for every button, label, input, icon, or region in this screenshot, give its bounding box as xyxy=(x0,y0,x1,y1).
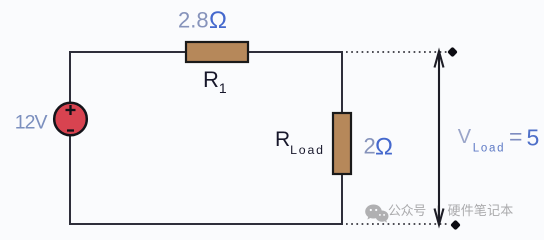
wire top-right segment xyxy=(247,51,343,53)
svg-text:公众号: 公众号 xyxy=(388,203,426,218)
svg-text:Ω: Ω xyxy=(209,7,227,34)
svg-text:2: 2 xyxy=(364,134,376,159)
svg-text:12V: 12V xyxy=(15,112,48,134)
resistor R1 xyxy=(186,42,248,62)
wire left lower segment xyxy=(69,135,71,225)
resistor RLoad xyxy=(333,113,351,174)
dotted leader line top xyxy=(346,51,447,53)
svg-text:Load: Load xyxy=(473,143,505,155)
wire top-left segment xyxy=(70,51,187,53)
svg-text:硬件笔记本: 硬件笔记本 xyxy=(448,203,514,218)
wire bottom segment xyxy=(69,223,343,225)
svg-text:2.8: 2.8 xyxy=(178,8,209,33)
node dot top xyxy=(447,47,458,58)
svg-text:Ω: Ω xyxy=(375,134,393,161)
wire left upper segment xyxy=(69,51,71,103)
voltage source V1 xyxy=(54,103,87,136)
voltage source plus sign xyxy=(66,105,76,115)
dimension arrow VLoad (vertical double arrow) xyxy=(435,51,444,224)
svg-text:=: = xyxy=(509,124,522,150)
svg-text:V: V xyxy=(458,126,472,148)
wire right upper segment xyxy=(341,51,343,114)
voltage source minus sign xyxy=(67,129,74,131)
svg-text:5: 5 xyxy=(527,124,540,150)
watermark icon (speech bubbles) xyxy=(365,205,388,223)
dotted leader line bottom xyxy=(346,223,450,225)
node dot bottom xyxy=(450,220,461,231)
wire right lower segment xyxy=(341,173,343,225)
